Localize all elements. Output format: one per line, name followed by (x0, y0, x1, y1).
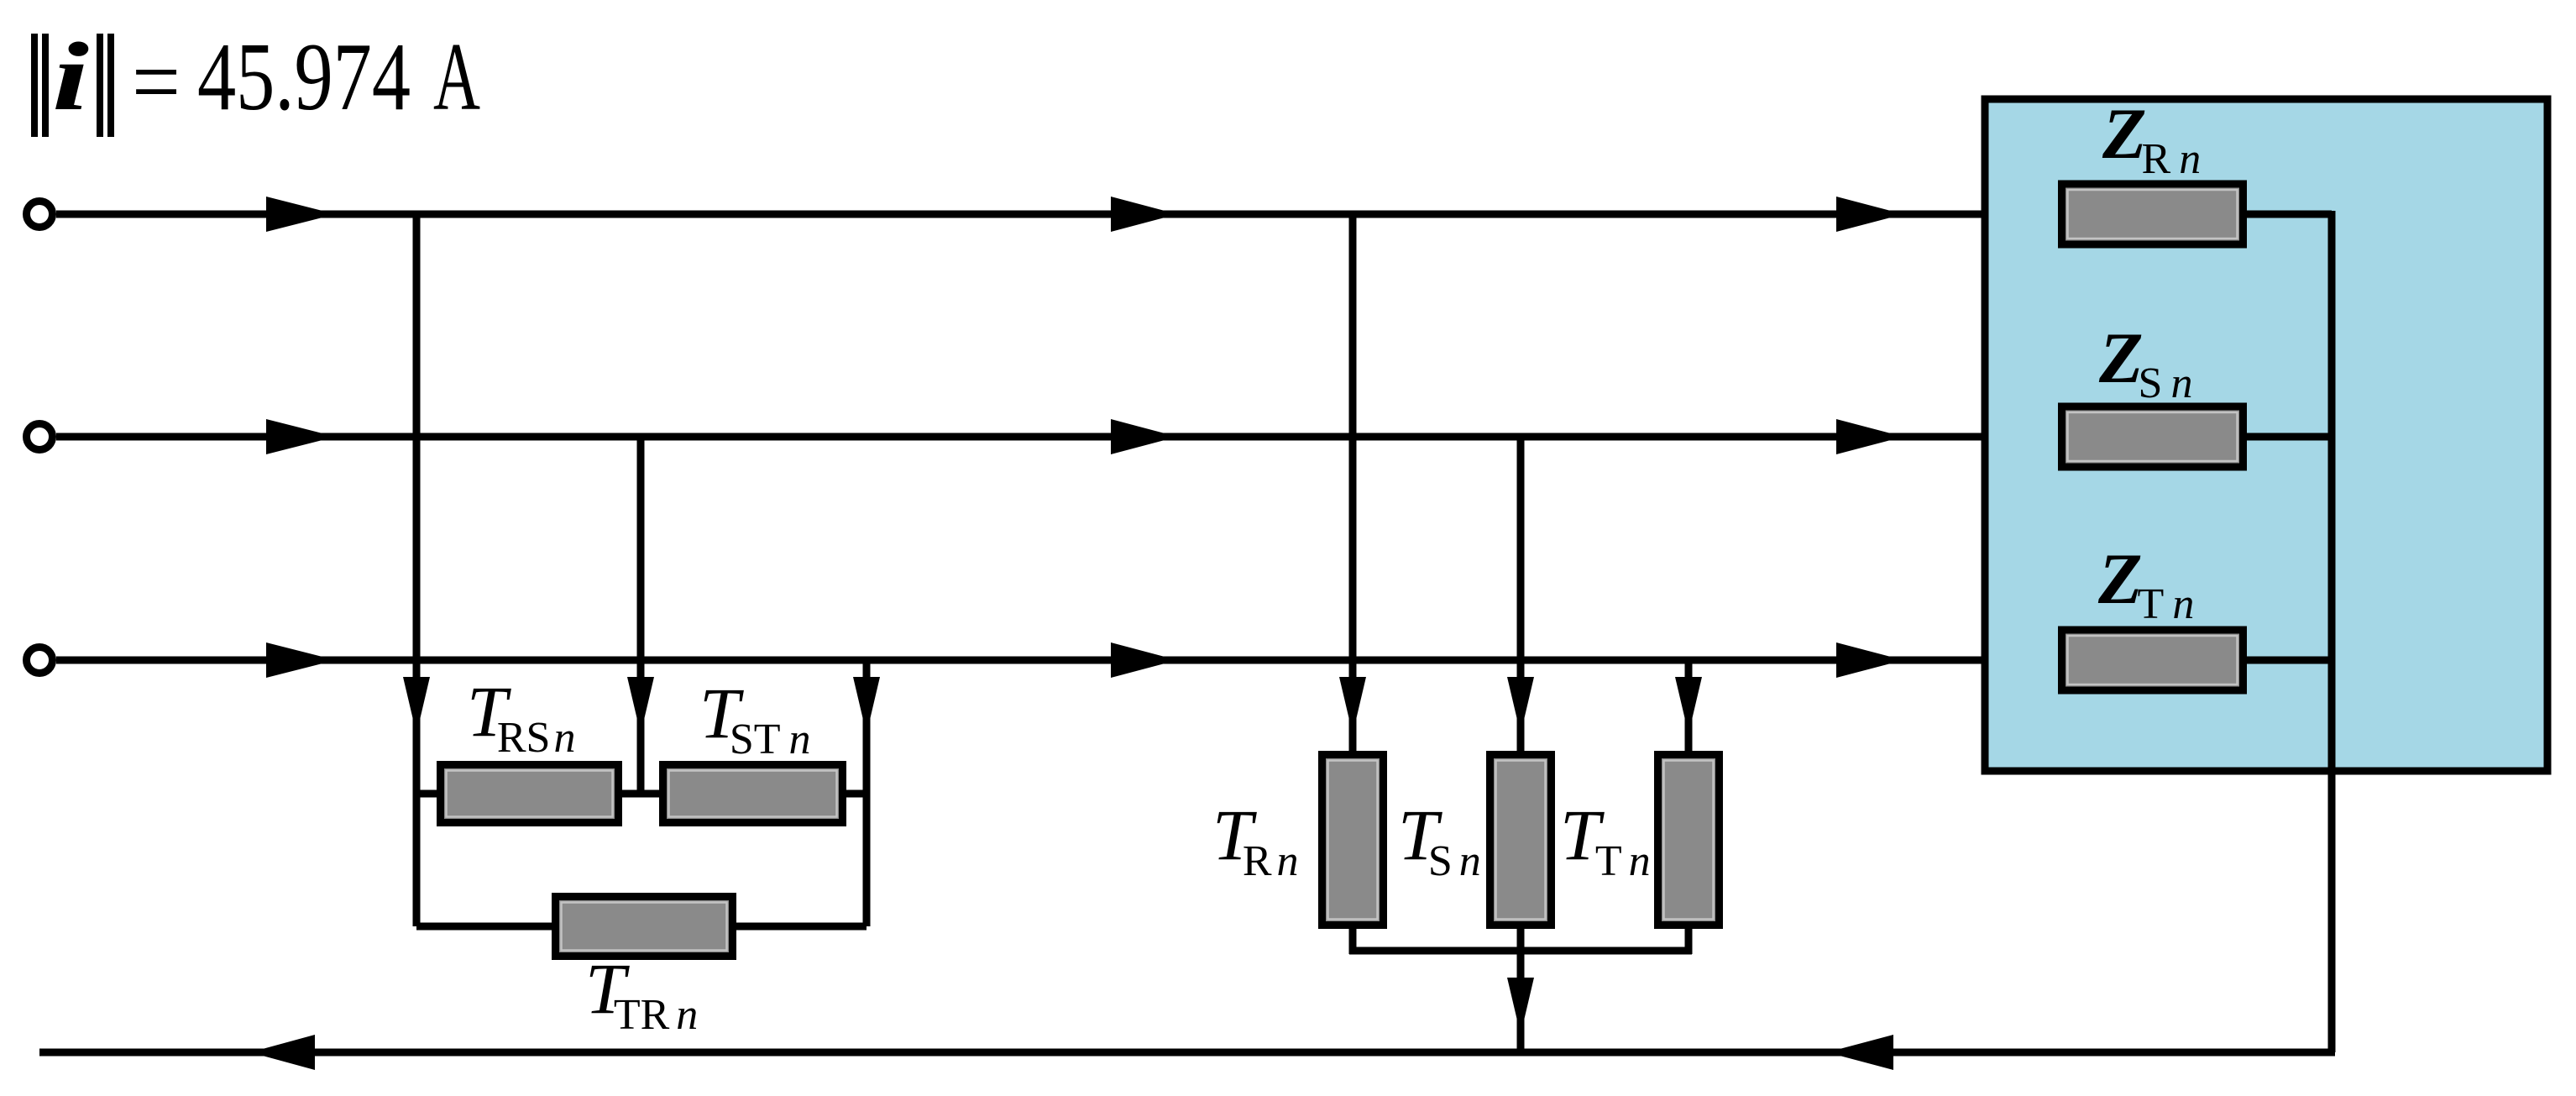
resistor T_Sn (1490, 755, 1552, 926)
arrow T3 (1836, 642, 1903, 678)
wire R (56, 211, 2061, 218)
resistor Z_Sn (2062, 406, 2244, 467)
wire neutral vertical (2328, 211, 2336, 1052)
wire star drop S (1517, 433, 1525, 754)
resistor T_Tn (1658, 755, 1720, 926)
arrow star T down (1675, 677, 1702, 734)
svg-text:i: i (52, 24, 89, 131)
svg-text:A: A (433, 24, 480, 131)
resistor T_TRn (556, 897, 733, 957)
resistor Z_Tn (2062, 630, 2244, 690)
wire star drop R (1349, 211, 1357, 754)
arrow R3 (1836, 197, 1903, 232)
wire Z_Tn lead (2061, 657, 2332, 664)
wire S (56, 433, 2061, 441)
load box (1985, 99, 2547, 771)
resistor T_Rn (1322, 755, 1384, 926)
wire delta drop T (863, 657, 871, 926)
resistor Z_Rn (2062, 184, 2244, 244)
svg-text:45.974: 45.974 (197, 24, 411, 131)
wire delta drop S (637, 433, 645, 794)
terminal T (27, 648, 53, 674)
wire star drop T (1685, 657, 1693, 754)
arrow R1 (266, 197, 336, 232)
wire delta bottom row (416, 923, 867, 931)
label norm equation ||i|| = 45.974 A (31, 24, 480, 137)
wire star neutral stub R (1349, 926, 1357, 954)
arrow star S down (1507, 677, 1534, 734)
arrow delta R down (403, 677, 430, 734)
wire star neutral drop (1517, 926, 1525, 1052)
wire T (56, 657, 2061, 664)
wire Z_Sn lead (2061, 433, 2332, 441)
wire delta mid row (416, 790, 867, 798)
terminal S (27, 424, 53, 450)
terminal R (27, 202, 53, 228)
arrow delta T down (853, 677, 880, 734)
arrow star R down (1339, 677, 1366, 734)
svg-text:=: = (132, 29, 181, 136)
resistor T_RSn (441, 765, 619, 823)
arrow S2 (1111, 419, 1177, 454)
wire star neutral row (1349, 947, 1692, 955)
arrow delta S down (627, 677, 654, 734)
arrow S1 (266, 419, 336, 454)
arrow return left near source (250, 1035, 315, 1070)
wire return bottom (39, 1049, 2335, 1057)
wire star neutral stub T (1685, 926, 1693, 954)
wire delta drop R (413, 211, 421, 926)
arrow R2 (1111, 197, 1177, 232)
arrow T2 (1111, 642, 1177, 678)
wire Z_Rn lead (2061, 211, 2332, 218)
arrow S3 (1836, 419, 1903, 454)
arrow T1 (266, 642, 336, 678)
arrow return left mid (1827, 1035, 1893, 1070)
arrow star neutral down (1507, 978, 1534, 1035)
resistor T_STn (663, 765, 843, 823)
